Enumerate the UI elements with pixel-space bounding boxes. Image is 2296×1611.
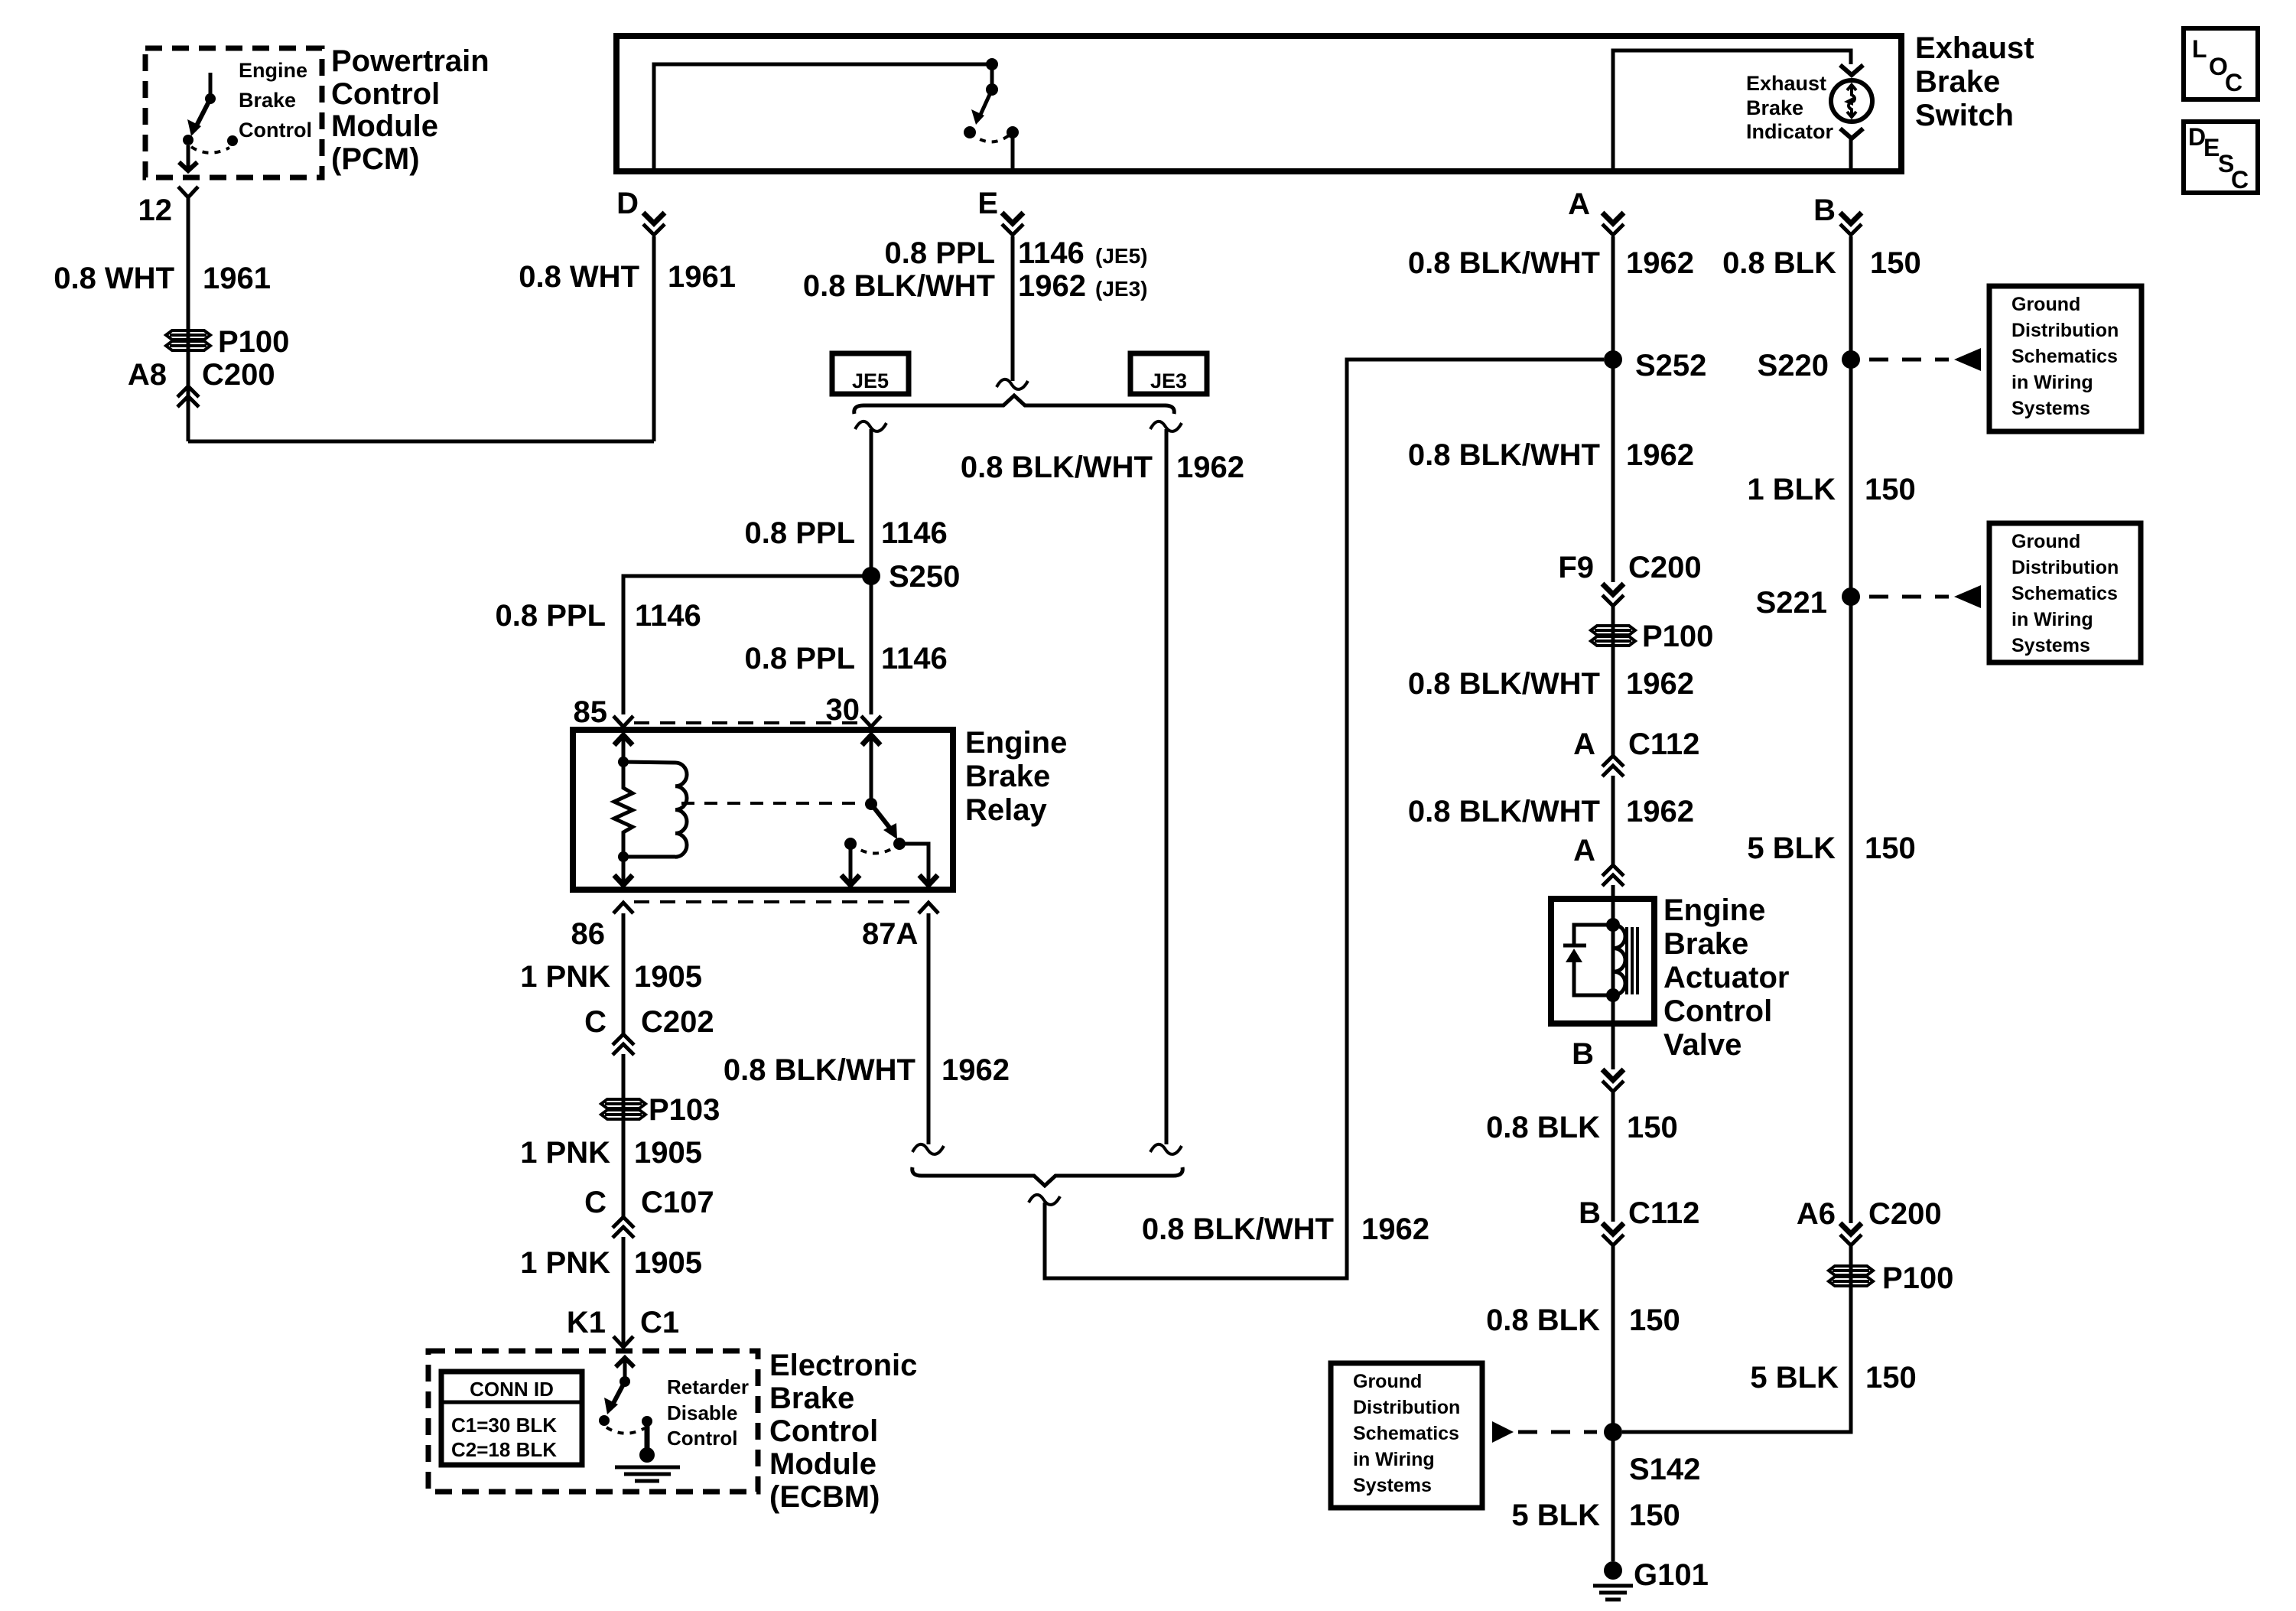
svg-text:1 BLK: 1 BLK: [1747, 473, 1836, 506]
switch throw dashed arc: [970, 132, 1013, 142]
svg-text:1146: 1146: [1018, 236, 1085, 270]
svg-text:A: A: [1573, 727, 1595, 761]
ECBM switch dashed arc: [607, 1427, 645, 1434]
svg-text:D: D: [616, 187, 639, 220]
wire 1962 (87A segment): [927, 913, 931, 1144]
svg-text:(JE5): (JE5): [1095, 244, 1147, 268]
switch contact node (right): [1007, 126, 1019, 138]
DESC box: [2184, 122, 2258, 193]
ECBM dashed box: [428, 1351, 758, 1492]
valve solenoid coil: [1614, 925, 1625, 995]
wire 1962 (A segment 1): [1611, 236, 1615, 582]
wire 1961 (D segment): [652, 236, 656, 441]
connector C200 chevrons (A8): [177, 386, 199, 397]
svg-text:S220: S220: [1758, 349, 1829, 382]
svg-text:1 PNK: 1 PNK: [520, 960, 610, 994]
wire 1962 (A segment 3): [1611, 776, 1615, 865]
valve internal wire: [1611, 899, 1615, 1024]
svg-text:C202: C202: [641, 1005, 714, 1039]
svg-text:C: C: [584, 1186, 607, 1219]
splice S142: [1604, 1423, 1622, 1441]
svg-text:0.8 PPL: 0.8 PPL: [884, 236, 995, 270]
svg-text:1961: 1961: [668, 260, 736, 294]
wire break JE3 top: [1150, 421, 1182, 431]
svg-text:1962: 1962: [1626, 438, 1694, 472]
relay blade: [871, 804, 890, 828]
relay connector dashed line (top): [634, 721, 860, 724]
pin D connector arrows: [643, 213, 665, 223]
wire break below brace: [1029, 1195, 1060, 1205]
svg-text:Brake: Brake: [1915, 65, 2000, 99]
ground G101: [1604, 1561, 1622, 1580]
wire break 87A bottom: [912, 1144, 944, 1154]
ECBM switch pivot dot: [620, 1376, 630, 1387]
pin 30 chevron: [861, 716, 881, 727]
svg-text:0.8 PPL: 0.8 PPL: [744, 642, 855, 675]
wire 1961 horizontal run: [188, 440, 654, 444]
svg-text:0.8 BLK/WHT: 0.8 BLK/WHT: [1408, 246, 1600, 280]
svg-text:0.8 BLK/WHT: 0.8 BLK/WHT: [724, 1053, 915, 1087]
ECBM ground stem: [645, 1421, 650, 1449]
splice S252: [1604, 350, 1622, 369]
connector P100 (left): [166, 330, 210, 350]
pin K1 chevron: [613, 1336, 633, 1347]
svg-text:Relay: Relay: [965, 793, 1047, 827]
svg-text:85: 85: [574, 695, 608, 729]
svg-text:0.8 BLK: 0.8 BLK: [1486, 1303, 1600, 1337]
ECBM switch blade: [611, 1382, 625, 1408]
wire 150 (B segment 2): [1622, 1245, 1851, 1432]
pin A connector arrows: [1602, 213, 1624, 223]
exhaust brake switch box: [616, 36, 1901, 171]
svg-text:Control: Control: [331, 77, 440, 111]
svg-text:P100: P100: [1642, 620, 1713, 653]
svg-text:B: B: [1579, 1196, 1601, 1230]
pin 87A chevron: [919, 903, 938, 913]
indicator connector chevron top: [1840, 65, 1863, 75]
connector C202 chevrons: [613, 1034, 634, 1045]
pin 12 chevron: [178, 187, 198, 197]
S221 reference dashed arrow: [1869, 595, 1949, 599]
svg-text:1962: 1962: [1018, 269, 1086, 303]
valve diode branch: [1574, 925, 1613, 945]
wire break at E: [997, 379, 1028, 389]
valve pin A chevrons: [1602, 865, 1624, 876]
ECBM contact node (right): [642, 1416, 652, 1427]
svg-text:S250: S250: [889, 560, 960, 594]
valve core lines: [1625, 927, 1628, 994]
switch pivot node: [986, 58, 998, 70]
pin E connector arrows: [1002, 213, 1023, 223]
S142 reference dashed arrow: [1492, 1421, 1514, 1443]
svg-text:C1=30 BLK: C1=30 BLK: [451, 1414, 557, 1437]
svg-text:Distribution: Distribution: [2011, 557, 2119, 578]
ground distribution box 1: [1989, 286, 2142, 431]
relay switch pivot dot: [865, 798, 877, 810]
svg-text:Module: Module: [331, 109, 438, 143]
svg-text:1962: 1962: [941, 1053, 1010, 1087]
svg-text:5 BLK: 5 BLK: [1747, 832, 1836, 865]
svg-text:(PCM): (PCM): [331, 142, 420, 176]
svg-text:0.8 BLK/WHT: 0.8 BLK/WHT: [1408, 667, 1600, 701]
PCM switch stem: [209, 73, 213, 99]
svg-text:1961: 1961: [203, 262, 271, 295]
svg-text:Control: Control: [769, 1414, 878, 1448]
svg-text:Schematics: Schematics: [2011, 583, 2118, 604]
PCM switch pivot dot: [205, 93, 216, 104]
svg-text:C1: C1: [640, 1306, 679, 1339]
switch contact node (left): [964, 126, 976, 138]
LOC box: [2184, 28, 2258, 99]
svg-text:150: 150: [1865, 832, 1916, 865]
wire B riser: [1849, 138, 1853, 171]
svg-text:1146: 1146: [635, 599, 701, 633]
relay linkage dashed: [681, 802, 863, 805]
svg-text:Distribution: Distribution: [2011, 320, 2119, 341]
relay coil: [623, 762, 675, 763]
wire 1905 (segment 1): [622, 913, 626, 1034]
svg-text:Valve: Valve: [1663, 1028, 1742, 1062]
svg-text:Disable: Disable: [667, 1401, 738, 1424]
svg-text:Brake: Brake: [1746, 96, 1803, 119]
wire 1146 (JE5 branch): [870, 429, 873, 576]
svg-text:Engine: Engine: [1663, 893, 1765, 927]
wire 1905 (segment 3): [622, 1237, 626, 1347]
svg-text:Control: Control: [1663, 994, 1772, 1028]
harness tag JE5: [832, 353, 909, 394]
relay connector dashed line (bottom): [634, 900, 918, 903]
svg-text:1146: 1146: [881, 516, 948, 550]
svg-text:G101: G101: [1634, 1558, 1709, 1592]
svg-text:Ground: Ground: [2011, 294, 2080, 315]
svg-text:Ground: Ground: [2011, 531, 2080, 552]
svg-text:5 BLK: 5 BLK: [1511, 1499, 1600, 1532]
svg-text:in Wiring: in Wiring: [2011, 609, 2093, 630]
svg-text:A6: A6: [1797, 1197, 1836, 1231]
svg-text:Schematics: Schematics: [1353, 1423, 1459, 1444]
wire 1146 branch to pin 85: [623, 576, 871, 714]
relay 87 internal wire: [849, 844, 853, 885]
svg-text:Engine: Engine: [239, 59, 307, 82]
relay contact node (left): [844, 838, 857, 850]
svg-text:A8: A8: [128, 358, 167, 392]
engine brake relay box: [573, 730, 953, 890]
svg-text:P100: P100: [1882, 1261, 1953, 1295]
svg-text:K1: K1: [567, 1306, 606, 1339]
harness tag JE3: [1130, 353, 1207, 394]
svg-text:0.8 BLK/WHT: 0.8 BLK/WHT: [1408, 795, 1600, 828]
svg-text:150: 150: [1629, 1303, 1680, 1337]
S220 reference dashed arrow: [1869, 358, 1949, 362]
svg-text:Systems: Systems: [1353, 1475, 1432, 1496]
switch blade pivot dot: [986, 83, 998, 96]
pin 86 chevron: [613, 903, 633, 913]
wire E riser: [1011, 132, 1015, 171]
wire 1962 (A segment 2): [1611, 606, 1615, 756]
svg-text:P100: P100: [218, 325, 289, 359]
relay pin 86 internal arrow: [622, 857, 626, 885]
svg-text:1962: 1962: [1626, 667, 1694, 701]
wire break JE5 top: [855, 421, 886, 431]
svg-text:Ground: Ground: [1353, 1371, 1422, 1392]
connector P100 (A): [1591, 626, 1635, 646]
svg-text:C112: C112: [1628, 1196, 1699, 1230]
svg-text:1 PNK: 1 PNK: [520, 1246, 610, 1280]
svg-text:0.8 BLK/WHT: 0.8 BLK/WHT: [961, 451, 1153, 484]
svg-text:150: 150: [1865, 473, 1916, 506]
svg-text:Engine: Engine: [965, 726, 1067, 760]
svg-text:Exhaust: Exhaust: [1915, 31, 2034, 65]
relay pin 85 internal arrow: [614, 735, 633, 745]
exhaust brake indicator lamp: [1831, 80, 1872, 122]
wire pivot stem: [990, 64, 994, 89]
svg-text:1905: 1905: [634, 1136, 702, 1170]
svg-text:1905: 1905: [634, 1246, 702, 1280]
svg-text:P103: P103: [649, 1093, 720, 1127]
svg-text:1146: 1146: [881, 642, 948, 675]
wire 150 (to S142): [1611, 1245, 1615, 1561]
PCM dashed box: [145, 48, 322, 177]
svg-text:C107: C107: [641, 1186, 714, 1219]
ECBM input arrow: [616, 1358, 634, 1367]
wire 1962 (JE3 branch): [1165, 429, 1169, 1144]
valve coil bottom node: [1606, 988, 1620, 1002]
svg-text:C2=18 BLK: C2=18 BLK: [451, 1438, 557, 1461]
wire 150 (below valve 2): [1611, 1092, 1615, 1222]
splice S250: [862, 567, 880, 585]
svg-text:Actuator: Actuator: [1663, 961, 1789, 994]
svg-text:C112: C112: [1628, 727, 1699, 761]
svg-text:JE5: JE5: [852, 369, 889, 392]
ground distribution box 3: [1331, 1363, 1482, 1508]
svg-text:1962: 1962: [1361, 1212, 1429, 1246]
PCM contact node (right): [227, 135, 238, 146]
svg-text:Brake: Brake: [1663, 927, 1748, 961]
svg-text:0.8 BLK/WHT: 0.8 BLK/WHT: [1408, 438, 1600, 472]
svg-text:Distribution: Distribution: [1353, 1397, 1460, 1418]
wire 1962 (A segment 4): [1611, 885, 1615, 899]
svg-text:S252: S252: [1635, 349, 1706, 382]
svg-text:S142: S142: [1629, 1453, 1700, 1486]
wire 1905 (segment 2): [622, 1054, 626, 1217]
harness split brace (upper): [854, 395, 1175, 414]
wire E output: [1011, 236, 1015, 381]
svg-text:F9: F9: [1558, 551, 1594, 584]
splice S221: [1842, 587, 1860, 606]
svg-text:Exhaust: Exhaust: [1746, 72, 1826, 95]
svg-text:0.8 PPL: 0.8 PPL: [495, 599, 606, 633]
svg-text:S221: S221: [1756, 586, 1827, 620]
svg-text:C200: C200: [1868, 1197, 1942, 1231]
svg-text:Powertrain: Powertrain: [331, 44, 489, 78]
PCM switch dashed arc: [191, 147, 229, 153]
svg-text:12: 12: [138, 194, 173, 227]
valve coil top node: [1606, 918, 1620, 932]
connector C112 arrows (B): [1602, 1223, 1624, 1234]
svg-text:B: B: [1572, 1037, 1594, 1071]
relay 87A internal wire: [899, 844, 928, 885]
svg-text:150: 150: [1627, 1111, 1678, 1144]
svg-text:Electronic: Electronic: [769, 1349, 917, 1382]
connector P103: [601, 1099, 646, 1119]
svg-text:0.8 PPL: 0.8 PPL: [744, 516, 855, 550]
svg-text:0.8 BLK: 0.8 BLK: [1722, 246, 1836, 280]
svg-text:(JE3): (JE3): [1095, 277, 1147, 301]
svg-text:Brake: Brake: [769, 1382, 854, 1415]
PCM output wire with arrow: [187, 145, 190, 168]
connector C107 chevrons: [613, 1217, 634, 1228]
svg-text:C200: C200: [202, 358, 275, 392]
connector P100 (B): [1829, 1266, 1873, 1286]
harness merge brace (lower): [912, 1167, 1183, 1186]
ECBM ground: [639, 1447, 655, 1463]
svg-text:Brake: Brake: [239, 89, 296, 112]
pin B connector arrows: [1840, 213, 1862, 223]
svg-text:(ECBM): (ECBM): [769, 1480, 880, 1514]
svg-text:E: E: [977, 187, 998, 220]
svg-text:Indicator: Indicator: [1746, 120, 1834, 143]
svg-text:JE3: JE3: [1150, 369, 1187, 392]
indicator connector chevron bottom: [1840, 129, 1863, 138]
relay throw dashed arc: [850, 844, 899, 854]
svg-text:Retarder: Retarder: [667, 1375, 749, 1398]
CONN ID box: [441, 1372, 582, 1465]
svg-text:C200: C200: [1628, 551, 1702, 584]
svg-text:1962: 1962: [1626, 795, 1694, 828]
svg-text:0.8 WHT: 0.8 WHT: [519, 260, 639, 294]
svg-text:Schematics: Schematics: [2011, 346, 2118, 367]
wire 1961 (PCM pin 12 segment): [187, 197, 190, 441]
svg-text:1962: 1962: [1626, 246, 1694, 280]
svg-text:87A: 87A: [862, 917, 918, 951]
PCM contact node (left): [183, 135, 194, 145]
svg-text:in Wiring: in Wiring: [2011, 372, 2093, 393]
svg-text:A: A: [1568, 187, 1590, 221]
svg-text:86: 86: [571, 917, 606, 951]
svg-text:0.8 WHT: 0.8 WHT: [54, 262, 174, 295]
svg-text:Control: Control: [667, 1427, 737, 1450]
connector C200 arrows (A6): [1840, 1223, 1862, 1234]
ECBM contact node (left): [599, 1415, 610, 1426]
svg-text:150: 150: [1629, 1499, 1680, 1532]
PCM switch blade: [194, 99, 210, 130]
relay coil top node: [618, 757, 629, 767]
relay coil bottom node: [618, 851, 629, 862]
svg-text:L: L: [2192, 35, 2207, 63]
svg-text:1962: 1962: [1176, 451, 1244, 484]
wire switch feed (D riser and horizontal): [654, 64, 992, 171]
svg-text:in Wiring: in Wiring: [1353, 1449, 1435, 1470]
connector C112 chevrons (A): [1602, 756, 1624, 766]
svg-text:1 PNK: 1 PNK: [520, 1136, 610, 1170]
relay pin 30 internal arrow: [862, 735, 880, 745]
svg-text:Systems: Systems: [2011, 398, 2090, 419]
svg-text:CONN ID: CONN ID: [470, 1378, 554, 1401]
splice S220: [1842, 350, 1860, 369]
svg-text:B: B: [1813, 194, 1836, 227]
wire 150 (below valve 1): [1611, 1024, 1615, 1069]
switch blade: [980, 89, 992, 116]
svg-text:5 BLK: 5 BLK: [1750, 1361, 1839, 1395]
svg-text:C: C: [2231, 166, 2249, 194]
svg-text:Control: Control: [239, 119, 312, 142]
svg-text:C: C: [2225, 69, 2242, 96]
wire 150 (B segment 1): [1849, 236, 1853, 1223]
svg-text:Systems: Systems: [2011, 635, 2090, 656]
svg-text:Module: Module: [769, 1447, 876, 1481]
svg-text:1905: 1905: [634, 960, 702, 994]
relay contact node (right): [893, 838, 906, 850]
valve pin B arrows: [1602, 1069, 1624, 1080]
wire break JE3 bottom: [1150, 1144, 1182, 1154]
relay resistor: [614, 762, 633, 857]
svg-text:Switch: Switch: [1915, 99, 2014, 132]
svg-text:150: 150: [1870, 246, 1921, 280]
pin 85 chevron: [613, 716, 633, 727]
connector C200 arrows (F9): [1602, 584, 1624, 594]
svg-text:0.8 BLK/WHT: 0.8 BLK/WHT: [803, 269, 995, 303]
engine brake actuator control valve box: [1551, 899, 1654, 1024]
svg-text:Brake: Brake: [965, 760, 1050, 793]
svg-text:C: C: [584, 1005, 607, 1039]
svg-text:0.8 BLK: 0.8 BLK: [1486, 1111, 1600, 1144]
svg-text:A: A: [1573, 834, 1595, 867]
svg-text:0.8 BLK/WHT: 0.8 BLK/WHT: [1142, 1212, 1334, 1246]
svg-text:150: 150: [1865, 1361, 1917, 1395]
ground distribution box 2: [1989, 523, 2141, 662]
wire 1962 merged run: [1045, 360, 1604, 1278]
wire 1146 to pin 30: [870, 576, 873, 714]
wire indicator feed (A riser and horizontal): [1613, 50, 1851, 171]
